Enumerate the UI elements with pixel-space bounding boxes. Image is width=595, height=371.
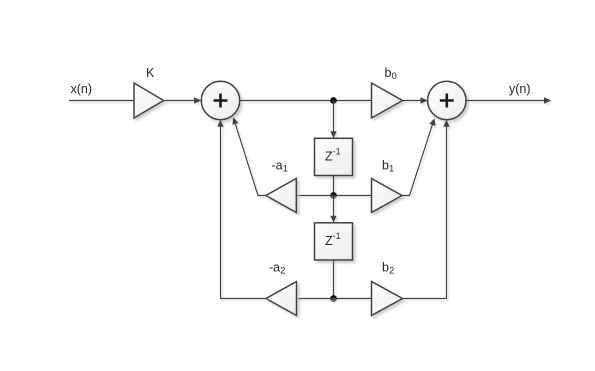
svg-text:b2: b2: [382, 261, 394, 277]
svg-text:x(n): x(n): [71, 82, 93, 96]
wire: input line x(n) to K amplifier: [69, 100, 134, 102]
amplifier -a2 (points left): [266, 282, 297, 316]
delay element Z^-1 (first): [315, 138, 353, 175]
svg-text:K: K: [146, 66, 155, 80]
wire: -a2 output left then up to summer 1 with arrowhead: [217, 120, 266, 299]
wire: first delay to node B: [333, 176, 335, 196]
wire: node C left to -a2 input: [297, 298, 334, 300]
amplifier b2: [372, 282, 403, 316]
amplifier b1: [372, 179, 403, 213]
svg-text:-a1: -a1: [272, 158, 288, 174]
wire: node B left to -a1 input: [296, 195, 333, 197]
delay element Z^-1 (second): [315, 223, 353, 260]
amplifier K: [134, 83, 164, 118]
summing junction U1 (left adder): [201, 81, 239, 119]
summing junction U2 (right adder): [428, 81, 466, 119]
wire: b0 output to summer 2 with arrowhead: [403, 97, 428, 103]
svg-text:-a2: -a2: [269, 261, 285, 277]
wire: summer 2 to output y(n) with arrowhead: [466, 97, 551, 103]
node A (junction dot on top line): [330, 97, 337, 104]
svg-text:b0: b0: [385, 66, 397, 82]
node C (junction dot, bottom): [330, 295, 337, 302]
amplifier -a1 (points left): [266, 179, 297, 213]
wire: node B down to second delay with arrowhead: [330, 196, 336, 223]
node B (junction dot, middle): [330, 192, 337, 199]
wire: -a1 output up to summer 1 with arrowhead: [232, 117, 265, 195]
wire: b2 output right then up to summer 2 with arrowhead: [403, 120, 450, 299]
wire: summer 1 to node A to b0: [240, 100, 372, 102]
wire: b1 output up to summer 2 with arrowhead: [402, 118, 435, 195]
svg-text:y(n): y(n): [509, 82, 531, 96]
wire: node B right to b1 input: [334, 195, 372, 197]
wire: node A down to first delay with arrowhead: [330, 101, 336, 139]
wire: node C right to b2 input: [334, 298, 372, 300]
amplifier b0: [372, 83, 403, 118]
wire: K output to summer 1 with arrowhead: [164, 97, 202, 103]
wire: second delay to node C: [333, 260, 335, 299]
svg-text:b1: b1: [382, 158, 394, 174]
